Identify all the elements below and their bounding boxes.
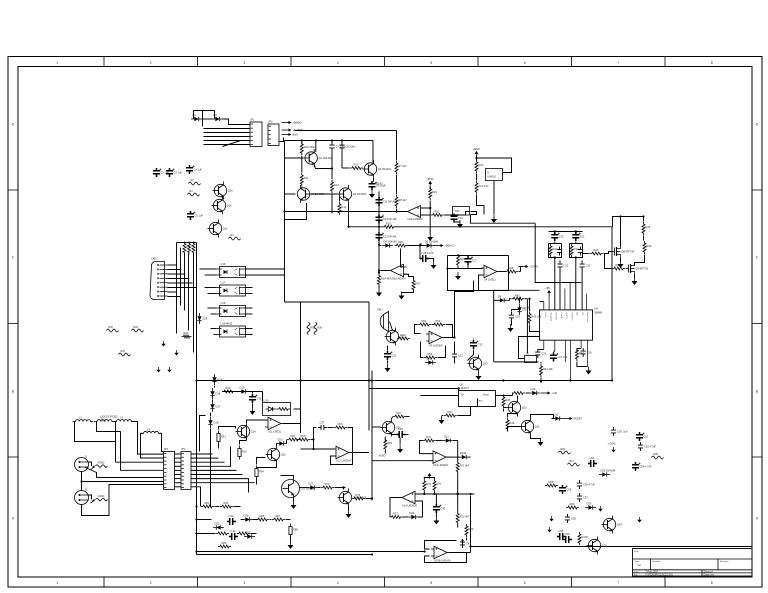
- resistor R62: [239, 446, 241, 460]
- capacitor C8 100n: [339, 142, 344, 151]
- ground: [167, 367, 171, 373]
- svg-text:8: 8: [711, 61, 713, 65]
- wire vert x210: [210, 429, 212, 507]
- wire: [620, 217, 622, 247]
- svg-text:GND: GND: [101, 419, 107, 423]
- polarized capacitor C21: [572, 232, 579, 241]
- ground: [618, 260, 624, 268]
- wire: [444, 337, 455, 339]
- ground: [161, 341, 165, 347]
- wire: [396, 209, 398, 212]
- transducer MK1: [380, 312, 388, 332]
- wire: [512, 393, 514, 396]
- ground: [369, 190, 375, 198]
- svg-text:C60: C60: [565, 532, 570, 536]
- wire: [454, 342, 456, 352]
- ground: [547, 527, 551, 533]
- wire: [581, 261, 583, 262]
- svg-text:R75: R75: [393, 512, 398, 516]
- wire: [252, 404, 254, 408]
- wire coil4 left: [141, 433, 164, 458]
- svg-text:C: C: [756, 256, 759, 260]
- wire: [477, 158, 512, 173]
- resistor R75: [390, 516, 403, 519]
- polarized capacitor C17: [465, 256, 472, 265]
- capacitor C29: [509, 312, 514, 321]
- node RESET: [563, 417, 573, 420]
- svg-text:R46: R46: [510, 421, 515, 425]
- resistor R52: [432, 323, 445, 326]
- wire: [283, 423, 301, 425]
- svg-text:C16: C16: [458, 216, 463, 220]
- svg-text:R8 4k7: R8 4k7: [399, 198, 408, 202]
- wire: [477, 399, 479, 407]
- resistor R37: [612, 267, 625, 270]
- wire base: [285, 157, 304, 159]
- svg-text:R42: R42: [515, 293, 520, 297]
- svg-text:R51: R51: [422, 319, 427, 323]
- wire fanout: [191, 461, 225, 463]
- wire: [293, 498, 295, 502]
- svg-text:Vin: Vin: [461, 394, 465, 397]
- svg-text:C31: C31: [392, 354, 397, 358]
- wire opto out: [246, 293, 253, 295]
- wire: [531, 415, 554, 418]
- junction: [554, 230, 556, 232]
- wire: [331, 151, 333, 180]
- resistor R33: [590, 252, 603, 255]
- polarized capacitor C35: [249, 394, 256, 403]
- svg-text:D16: D16: [216, 392, 221, 396]
- svg-text:R41 10k: R41 10k: [543, 367, 553, 371]
- resistor R94: [119, 353, 131, 356]
- polarized capacitor C16: [451, 214, 458, 223]
- svg-text:R67: R67: [397, 411, 402, 415]
- svg-text:R73: R73: [325, 482, 330, 486]
- svg-text:D5 1N4148: D5 1N4148: [425, 240, 439, 244]
- junction: [195, 518, 197, 520]
- svg-text:BG43: BG43: [377, 183, 384, 186]
- svg-text:(1/2T): (1/2T): [565, 313, 567, 319]
- resistor R98: [545, 484, 558, 487]
- svg-text:D15: D15: [218, 378, 223, 382]
- svg-text:D26: D26: [244, 514, 249, 518]
- wire to JP1 pin 2: [204, 128, 250, 130]
- wire: [435, 494, 437, 504]
- wire: [257, 464, 277, 468]
- wire: [341, 151, 343, 168]
- wire din pin: [168, 273, 185, 275]
- resistor R97: [568, 463, 580, 466]
- wire: [448, 256, 483, 269]
- svg-text:+5B(AC): +5B(AC): [445, 244, 455, 248]
- svg-text:D30: D30: [587, 502, 592, 506]
- wire jp link: [175, 478, 182, 480]
- svg-text:C43: C43: [231, 529, 236, 533]
- wire: [554, 242, 556, 244]
- wire: [473, 339, 475, 340]
- junction: [433, 493, 435, 495]
- wire: [457, 267, 459, 269]
- transistor Q1a: [213, 182, 227, 200]
- wire: [620, 258, 622, 261]
- diode inside U10: [266, 407, 277, 411]
- wire: [348, 507, 350, 511]
- wire: [454, 221, 460, 222]
- transistor Q17 BD809: [282, 480, 300, 498]
- svg-text:Seq In B: Seq In B: [549, 313, 551, 322]
- wire: [402, 291, 414, 293]
- wire out: [390, 498, 402, 518]
- transistor Q19: [602, 516, 616, 534]
- wire: [348, 203, 350, 214]
- wire: [508, 414, 518, 418]
- MOSFET Q9 IRF730: [626, 263, 635, 275]
- svg-text:4: 4: [337, 61, 339, 65]
- resistor R86: [256, 518, 269, 521]
- junction: [312, 438, 314, 440]
- junction: [195, 550, 197, 552]
- wire: [457, 473, 459, 512]
- ground: [156, 367, 160, 373]
- wire: [449, 552, 471, 554]
- capacitor C56 4.7uF: [577, 480, 582, 489]
- component U10: [263, 403, 291, 416]
- wire din pin: [168, 278, 189, 280]
- wire col A to IC: [554, 258, 556, 310]
- junction: [80, 480, 82, 482]
- resistor R82: [220, 505, 233, 508]
- node +MB(A): [282, 121, 292, 124]
- svg-text:7: 7: [617, 61, 619, 65]
- ground: [476, 372, 482, 380]
- svg-text:Q3 2N4401: Q3 2N4401: [378, 167, 392, 171]
- wire: [421, 214, 431, 216]
- polarized capacitor C59: [557, 533, 566, 540]
- capacitor C50 .1uF: [611, 427, 616, 436]
- svg-text:C40: C40: [440, 507, 445, 511]
- op-amp U15B LM2904: [431, 546, 450, 559]
- svg-text:R53: R53: [428, 352, 433, 356]
- svg-text:U15B LM2904: U15B LM2904: [434, 558, 451, 562]
- svg-text:R99: R99: [570, 502, 575, 506]
- wire: [457, 441, 459, 462]
- diode D18: [208, 417, 212, 428]
- junction: [378, 226, 380, 228]
- svg-text:C12 NF-AB: C12 NF-AB: [383, 217, 397, 221]
- svg-text:7: 7: [617, 581, 619, 585]
- wire: [520, 267, 522, 272]
- transistor Q3 2N4401: [363, 160, 377, 178]
- wire: [88, 462, 92, 466]
- wire top: [177, 242, 197, 244]
- wire loop: [82, 485, 164, 516]
- wire cap bus: [378, 192, 380, 275]
- junction: [619, 215, 621, 217]
- op-amp U13 LM2904: [430, 451, 449, 464]
- power +5PW: [475, 151, 479, 158]
- wire top: [448, 255, 509, 257]
- svg-text:A: A: [12, 517, 15, 521]
- wire out: [379, 270, 391, 272]
- svg-text:1: 1: [56, 61, 58, 65]
- ground: [174, 350, 178, 356]
- wire opto out: [246, 313, 253, 315]
- polarized capacitor C12 NF-AB: [376, 215, 383, 224]
- wire: [583, 253, 590, 255]
- ground: [538, 438, 544, 446]
- wire: [241, 519, 244, 521]
- resistor R73: [321, 486, 334, 489]
- wire opto out: [246, 268, 285, 270]
- wire RC loop: [570, 244, 583, 258]
- svg-text:R4: R4: [231, 234, 235, 237]
- svg-text:R14: R14: [342, 205, 347, 209]
- svg-text:2: 2: [150, 61, 152, 65]
- svg-text:C5 1uF: C5 1uF: [195, 214, 204, 218]
- svg-text:D18: D18: [214, 421, 219, 425]
- svg-text:+CVPS: +CVPS: [530, 265, 539, 269]
- svg-text:L3: L3: [120, 416, 123, 420]
- resistor R24 4k7: [378, 274, 381, 287]
- wire: [454, 360, 456, 364]
- wire: [214, 386, 216, 388]
- wire: [458, 407, 471, 416]
- ground: [632, 277, 638, 285]
- svg-text:R7 4k7: R7 4k7: [399, 164, 408, 168]
- svg-text:JP3: JP3: [164, 447, 169, 451]
- inductor L3: [114, 420, 135, 422]
- wire vin: [421, 395, 459, 397]
- svg-text:Title: Title: [634, 550, 639, 553]
- resistor R69: [384, 438, 387, 451]
- wire: [215, 506, 220, 508]
- wire vert x300: [300, 302, 302, 433]
- wire: [457, 524, 459, 528]
- svg-text:C1: C1: [581, 313, 583, 317]
- svg-text:C20: C20: [559, 235, 564, 239]
- svg-text:2: 2: [150, 581, 152, 585]
- wire: [211, 313, 217, 315]
- svg-text:Date:: Date:: [634, 570, 640, 573]
- ground: [346, 510, 352, 518]
- wire: [442, 415, 444, 417]
- svg-text:R36: R36: [647, 244, 652, 248]
- node +CVPS: [519, 265, 529, 268]
- diode D25: [213, 525, 224, 529]
- wire: [526, 392, 530, 394]
- wire: [214, 334, 217, 336]
- transistor Q11: [520, 418, 534, 436]
- svg-text:R77: R77: [437, 482, 442, 486]
- transistor Q1c: [208, 220, 222, 238]
- node BisO: [282, 133, 292, 136]
- wire: [219, 427, 236, 430]
- diode D28: [197, 313, 201, 324]
- svg-text:Collecto: Collecto: [570, 313, 573, 322]
- wire: [208, 307, 217, 309]
- wire: [511, 321, 513, 326]
- wire: [446, 456, 460, 458]
- wire RC loop: [549, 244, 562, 258]
- resistor R29: [457, 254, 460, 267]
- svg-text:B1: B1: [576, 313, 578, 316]
- junction: [419, 244, 421, 246]
- wire rail y551: [197, 551, 425, 553]
- wire pin1 bend: [540, 301, 544, 303]
- svg-text:C51: C51: [644, 435, 649, 439]
- wire: [300, 487, 308, 489]
- wire: [503, 409, 505, 412]
- resistor R10 220k: [300, 142, 303, 155]
- wire: [438, 346, 446, 358]
- wire fanout: [191, 487, 201, 507]
- svg-text:U18: U18: [221, 301, 226, 305]
- svg-text:C23: C23: [586, 264, 591, 268]
- ground: [385, 364, 391, 372]
- resistor R35: [642, 222, 645, 235]
- wire din pin: [168, 296, 181, 298]
- resistor R99: [566, 506, 579, 509]
- junction: [195, 505, 197, 507]
- wire: [493, 181, 495, 215]
- wire: [290, 537, 292, 542]
- svg-text:+Vout: +Vout: [483, 394, 490, 397]
- wire opamp out: [285, 211, 408, 213]
- svg-text:U10: U10: [264, 398, 269, 402]
- wire: [577, 349, 581, 352]
- svg-text:C32: C32: [458, 354, 463, 358]
- wire: [379, 245, 382, 247]
- svg-text:R33: R33: [594, 248, 599, 252]
- resistor R61: [218, 431, 220, 445]
- wire: [478, 373, 480, 374]
- svg-text:JP4: JP4: [181, 447, 186, 451]
- svg-text:C55: C55: [567, 488, 572, 492]
- wire din pin: [168, 282, 193, 284]
- op-amp U11 LM311: [265, 417, 284, 430]
- wire to JP3: [132, 422, 164, 455]
- polarized capacitor C43: [229, 533, 238, 540]
- connector JP3: [164, 452, 175, 490]
- ground: [439, 416, 445, 424]
- wire: [256, 479, 258, 485]
- wire to JP3: [116, 461, 164, 463]
- junction: [461, 539, 463, 541]
- IC U?: [486, 169, 503, 181]
- wire: [351, 452, 370, 454]
- svg-text:Size: Size: [635, 561, 640, 563]
- ground: [427, 233, 433, 241]
- wire: [392, 417, 394, 419]
- wire: [301, 187, 303, 189]
- svg-text:D23a: D23a: [460, 451, 467, 455]
- diode D23: [307, 485, 318, 489]
- wire: [530, 325, 540, 331]
- junction: [371, 553, 373, 555]
- wire jp link: [175, 474, 182, 476]
- resistor R50: [397, 337, 410, 340]
- wire: [577, 362, 588, 367]
- junction: [378, 243, 380, 245]
- wire nest2: [97, 422, 121, 432]
- junction: [575, 230, 577, 232]
- capacitor C52 4.7uF: [638, 442, 643, 451]
- wire: [223, 119, 250, 125]
- wire: [496, 395, 513, 397]
- wire: [301, 141, 303, 145]
- resistor R56: [314, 323, 317, 335]
- resistor R74: [352, 497, 365, 500]
- diode D8: [497, 298, 508, 302]
- resistor R60: [222, 390, 235, 393]
- svg-text:R45: R45: [506, 398, 511, 402]
- svg-text:D2: D2: [214, 113, 218, 117]
- wire: [193, 111, 195, 119]
- resistor R72 4k7: [456, 512, 459, 525]
- diode D26: [242, 517, 253, 521]
- power +5B: [547, 290, 551, 297]
- wire: [429, 187, 431, 190]
- svg-text:LM317T: LM317T: [460, 386, 470, 390]
- svg-text:C58: C58: [571, 517, 576, 521]
- resistor R67: [393, 415, 406, 418]
- wire: [634, 275, 636, 278]
- svg-text:B: B: [756, 390, 759, 394]
- svg-text:U13 LM2904: U13 LM2904: [433, 463, 448, 467]
- svg-text:R43 10k: R43 10k: [532, 315, 542, 319]
- svg-text:In Co: In Co: [544, 313, 546, 319]
- diode D17: [210, 401, 214, 412]
- diode D1: [191, 117, 202, 121]
- wire: [131, 421, 133, 423]
- svg-text:U11 LM311: U11 LM311: [268, 429, 282, 433]
- svg-text:AGND: AGND: [379, 455, 386, 458]
- svg-text:R31: R31: [553, 247, 558, 251]
- border ticks: [103, 57, 105, 588]
- ground: [399, 292, 405, 300]
- svg-text:6: 6: [524, 581, 526, 585]
- wire: [605, 254, 612, 269]
- junction: [299, 379, 301, 381]
- capacitor C37: [318, 425, 327, 430]
- svg-text:C29: C29: [515, 315, 520, 319]
- resistor R7 4k7: [395, 161, 398, 174]
- wire: [234, 506, 241, 508]
- wire: [286, 440, 288, 444]
- svg-text:R60: R60: [226, 386, 231, 390]
- svg-text:3: 3: [243, 61, 245, 65]
- diode D13: [425, 360, 436, 364]
- MOSFET Q8 IRF730: [612, 246, 621, 258]
- svg-text:BisO: BisO: [293, 133, 299, 137]
- wire: [415, 325, 421, 334]
- wire: [387, 346, 389, 351]
- transistor Q20: [587, 537, 601, 555]
- resistor R?: [277, 408, 290, 411]
- diode D30: [585, 505, 596, 509]
- svg-text:R80: R80: [469, 527, 474, 531]
- svg-text:R100: R100: [582, 535, 589, 539]
- svg-text:5: 5: [430, 61, 432, 65]
- wire base: [372, 426, 381, 428]
- svg-text:Q20: Q20: [602, 544, 607, 548]
- wire: [406, 416, 410, 418]
- wire: [378, 286, 380, 289]
- wire in rail: [372, 460, 433, 462]
- svg-text:R82: R82: [224, 501, 229, 505]
- ground: [433, 517, 439, 525]
